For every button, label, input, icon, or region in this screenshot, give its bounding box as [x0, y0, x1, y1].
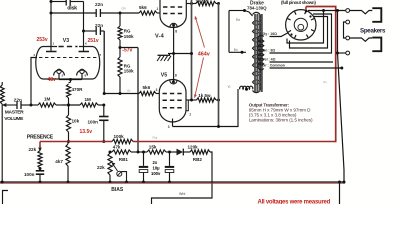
wire speaker common: [338, 11, 346, 205]
svg-text:2x: 2x: [153, 160, 158, 165]
svg-text:Bn: Bn: [234, 48, 238, 52]
svg-text:13.5v: 13.5v: [80, 129, 93, 135]
svg-text:1k 5W: 1k 5W: [196, 0, 210, 4]
svg-text:All voltages were measured: All voltages were measured: [258, 200, 331, 204]
wire V4 grid net: [51, 12, 139, 15]
svg-text:MASTER: MASTER: [5, 110, 24, 116]
svg-text:8: 8: [175, 30, 177, 34]
svg-text:150k: 150k: [124, 69, 134, 74]
capacitor C 22n lower: [95, 23, 103, 35]
jack 2 tip: [346, 36, 372, 41]
capacitor bias 10u A: [139, 152, 148, 184]
svg-text:1M: 1M: [44, 97, 51, 102]
label V5: [161, 73, 177, 79]
diode bias rectifier: [171, 149, 190, 156]
svg-text:Gn: Gn: [122, 6, 126, 10]
svg-text:3: 3: [156, 88, 158, 92]
svg-text:-57v: -57v: [122, 48, 132, 54]
wire V4 plate: [186, 2, 196, 5]
svg-text:100n: 100n: [24, 172, 35, 177]
svg-text:(full pinout shown): (full pinout shown): [281, 0, 316, 5]
wire V5 bottom to OT: [173, 89, 239, 128]
svg-text:Yl: Yl: [228, 85, 231, 89]
wire B+ 464v vertical: [191, 0, 193, 100]
triode V3 envelope: [36, 47, 100, 80]
potentiometer MASTER VOLUME track: [0, 82, 4, 182]
label MASTER VOLUME: [4, 110, 24, 122]
resistor 15k: [147, 145, 171, 154]
wire V5 pin1 stub: [186, 100, 191, 116]
resistor 10k: [66, 105, 79, 143]
wire plate V3 pin1 feed: [50, 0, 53, 52]
arrow 464v to V5: [194, 58, 203, 99]
svg-text:22n: 22n: [14, 97, 22, 102]
svg-text:Speakers: Speakers: [360, 28, 386, 35]
wire V3 grid left: [31, 58, 37, 106]
wire OT tap common: [270, 67, 344, 70]
svg-text:Laminations: 38mm (1.5 inches: Laminations: 38mm (1.5 inches): [249, 118, 313, 123]
svg-text:V3: V3: [63, 38, 69, 44]
resistor 1M left: [31, 97, 62, 108]
svg-text:22n: 22n: [95, 23, 103, 28]
resistor 4k7: [55, 142, 70, 184]
label Drake 784-139Q: [247, 1, 267, 11]
svg-text:Yel : 4Ω: Yel : 4Ω: [263, 58, 276, 62]
svg-text:Gr : Common: Gr : Common: [263, 64, 285, 68]
capacitor 22n master volume: [14, 97, 33, 109]
wire bias return: [152, 152, 213, 204]
wire NFB (red): [40, 7, 337, 143]
svg-text:48v: 48v: [48, 77, 57, 83]
svg-text:Gy : 16Ω: Gy : 16Ω: [263, 32, 278, 36]
capacitor 100n presence: [24, 171, 44, 184]
wire plate V3 pin6 feed: [82, 2, 85, 52]
potentiometer PRESENCE 22k: [29, 142, 43, 171]
capacitor disk (plate-plate): [66, 0, 77, 11]
resistor 5k6 (V4 grid stopper): [139, 5, 160, 15]
svg-text:1M: 1M: [85, 97, 92, 102]
arrow 464v to V4: [195, 16, 205, 48]
capacitor 100n (presence hi-cut): [88, 105, 109, 143]
wire V3 pin6 to C2: [84, 30, 105, 32]
label 2x 10u 100v: [151, 160, 161, 176]
wire V3 cathodes: [59, 74, 82, 82]
wire mv rail: [62, 104, 80, 107]
svg-text:120k: 120k: [188, 145, 199, 150]
svg-text:PRESENCE: PRESENCE: [27, 135, 54, 141]
svg-text:4k7: 4k7: [55, 159, 63, 164]
svg-text:47k: 47k: [113, 145, 121, 150]
resistor 1k 5w (V5): [197, 93, 221, 102]
jack 1 sleeve: [372, 8, 381, 22]
resistor 1M right: [80, 97, 105, 107]
jack 1 tip: [346, 9, 372, 14]
wire ground bus (red under): [0, 182, 345, 184]
svg-text:disk: disk: [67, 5, 77, 11]
wire V5 grid net: [104, 89, 139, 95]
wire V5 bottom: [168, 119, 173, 129]
pentode V5 envelope: [159, 79, 186, 122]
jack 2 ring: [336, 51, 350, 55]
wire V5 plate: [186, 99, 197, 102]
wire socket wrap 2: [290, 17, 328, 49]
wire OT top lead: [229, 9, 253, 16]
ground symbol: [157, 52, 193, 61]
svg-text:784-139Q: 784-139Q: [247, 5, 267, 10]
svg-text:15k: 15k: [149, 145, 157, 150]
wire OT CT riser: [228, 11, 230, 53]
resistor 470R: [66, 80, 83, 107]
transformer OT core: [255, 14, 262, 92]
wire OT tap 4ohm: [270, 61, 334, 63]
svg-text:1: 1: [189, 112, 191, 116]
note output transformer: [249, 102, 313, 122]
resistor 47k bias feed: [110, 145, 147, 154]
wire plate-to-plate top: [51, 1, 84, 3]
node -57v: [119, 46, 139, 54]
svg-text:Wht: Wht: [179, 192, 185, 196]
svg-text:5k6: 5k6: [139, 5, 147, 10]
svg-text:22n: 22n: [95, 2, 103, 7]
transformer OT primary: [253, 12, 262, 92]
wire V5 coupling vertical: [103, 31, 106, 95]
pentode V-4 envelope: [160, 0, 186, 27]
svg-text:Gn : 8Ω: Gn : 8Ω: [263, 49, 276, 53]
wire OT CT lead: [229, 51, 246, 54]
resistor RG 150k lower: [118, 48, 134, 94]
capacitor bias 10u B: [165, 151, 174, 184]
pin labels V3: [34, 42, 102, 78]
transformer OT secondary: [258, 35, 264, 69]
wire socket to jacks: [308, 9, 346, 12]
wire V4 cathode: [172, 27, 175, 56]
svg-text:150k: 150k: [124, 34, 134, 39]
svg-text:1k 5w: 1k 5w: [198, 93, 211, 98]
wire OT bottom lead loops: [240, 86, 253, 90]
jack 2 sleeve: [372, 38, 381, 52]
capacitor C 22n upper: [95, 2, 103, 17]
svg-text:Rd: Rd: [236, 18, 240, 22]
svg-text:3: 3: [168, 125, 170, 129]
resistor 1k 5W (V4): [196, 0, 221, 6]
jack 1 ring: [344, 20, 350, 38]
svg-text:BIAS: BIAS: [111, 187, 124, 193]
master volume wiper arrow: [2, 103, 17, 107]
svg-text:470R: 470R: [72, 87, 84, 92]
svg-text:22k: 22k: [29, 147, 37, 152]
KT66 socket diagram: [286, 10, 316, 40]
wire V5 top cathode: [173, 54, 175, 82]
svg-text:100n: 100n: [88, 120, 99, 125]
svg-text:253v: 253v: [37, 37, 48, 43]
svg-text:RB1: RB1: [119, 157, 129, 162]
wire OT tap 8ohm: [270, 14, 332, 53]
corner box bottom-left: [3, 191, 9, 205]
wire screen node vertical: [218, 4, 220, 127]
potentiometer RB1 22k bias: [97, 151, 128, 184]
svg-text:22k: 22k: [97, 165, 105, 170]
svg-text:100v: 100v: [151, 171, 161, 176]
svg-text:251v: 251v: [88, 38, 99, 44]
resistor RG 150k upper: [118, 13, 134, 48]
wire OT tap 16ohm: [270, 33, 289, 37]
svg-text:VOLUME: VOLUME: [4, 116, 24, 122]
wire bias feed vertical: [137, 48, 139, 153]
svg-text:V-4: V-4: [155, 33, 165, 39]
resistor 5k6 (V5 grid stopper): [139, 85, 159, 96]
svg-text:10k: 10k: [72, 119, 80, 124]
wire socket wrap 1: [287, 11, 324, 44]
svg-text:8: 8: [175, 73, 177, 77]
svg-text:Gn: Gn: [323, 80, 327, 84]
svg-text:RB2: RB2: [193, 157, 203, 162]
svg-text:100k: 100k: [114, 134, 125, 139]
svg-text:5k6: 5k6: [143, 85, 151, 90]
svg-text:1: 1: [157, 7, 159, 11]
label V-4: [155, 30, 177, 40]
svg-text:464v: 464v: [198, 52, 210, 58]
resistor 100k (NFB): [112, 134, 133, 144]
svg-text:10µ: 10µ: [153, 165, 161, 170]
svg-text:V5: V5: [161, 73, 167, 79]
resistor RB2 120k: [188, 145, 211, 162]
wire ground bus: [0, 181, 345, 184]
